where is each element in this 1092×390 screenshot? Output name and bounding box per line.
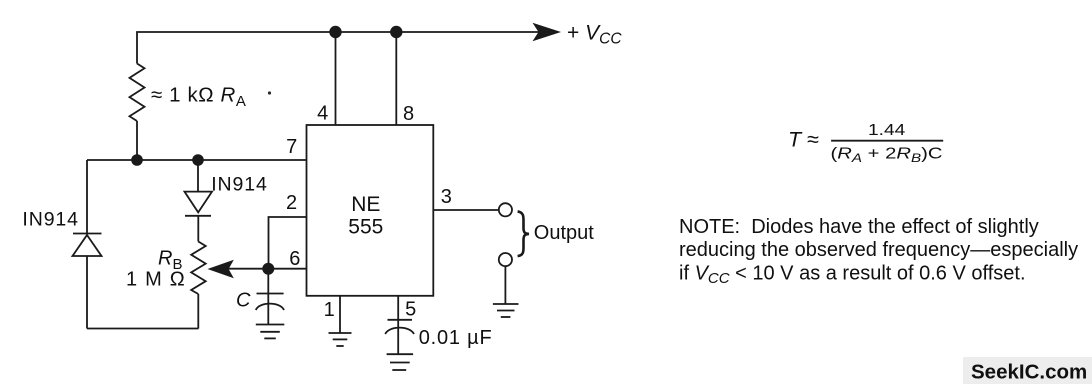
svg-text:1.44: 1.44 [868,122,905,139]
node junction dot on rail at pin8 [390,26,402,38]
capacitor C2 curved plate [385,328,414,334]
wire pin1 vertical [339,296,341,333]
svg-text:1 M Ω: 1 M Ω [126,269,186,291]
svg-text:SeekIC.com: SeekIC.com [971,361,1087,384]
wire bottom return [87,328,199,330]
ground pin5 bar2 [390,362,410,364]
svg-text:if VCC < 10 V as a result of 0: if VCC < 10 V as a result of 0.6 V offse… [679,263,1026,288]
ground below C bar2 [260,331,280,333]
wire bottom terminal to ground [504,266,506,304]
op-amp NE555 box [307,125,434,296]
node dot at RA/pin7 [131,154,143,166]
output brace [518,211,529,256]
svg-text:1: 1 [324,299,335,321]
svg-text:2: 2 [286,192,297,214]
ground below C bar1 [256,324,284,326]
svg-text:T ≈: T ≈ [788,128,819,152]
svg-text:4: 4 [317,102,328,124]
ground pin5 bar1 [387,353,414,355]
wire D2 to RB [197,216,199,242]
wire far-left vertical top [86,160,88,234]
wire pin7 horizontal [87,159,307,161]
watermark background [963,357,1092,384]
svg-text:reducing the observed frequenc: reducing the observed frequency—especial… [679,239,1078,261]
svg-text:7: 7 [286,136,297,158]
svg-text:3: 3 [441,186,452,208]
wire RA bottom to node [136,121,138,160]
svg-text:≈ 1 kΩ RA: ≈ 1 kΩ RA [151,84,247,111]
ground pin1 bar2 [333,338,348,340]
diode D2 IN914 triangle [185,192,213,213]
speck dot [268,91,271,94]
resistor RB zigzag [191,242,206,295]
wire RB bottom [197,294,199,329]
wire node to capacitor C [267,269,269,325]
node dot pin6/wiper/C junction [262,263,274,275]
ground below C bar3 [264,337,276,339]
svg-text:5: 5 [405,298,416,320]
svg-text:(RA + 2RB)C: (RA + 2RB)C [831,146,943,165]
svg-text:NE: NE [351,193,380,216]
resistor RA zigzag [130,64,145,122]
svg-text:C: C [236,290,251,312]
svg-text:6: 6 [289,248,300,270]
node junction dot on rail at pin4 [329,26,341,38]
ground pin1 bar3 [336,345,343,347]
wire pin8 vertical from rail to box top [395,32,397,125]
ground output bar3 [501,316,511,318]
capacitor C curved plate [256,304,284,310]
arrowhead +Vcc [533,23,562,41]
arrowhead wiper pointing left [208,260,234,278]
wire pin4 vertical from rail to box top [335,32,337,125]
svg-text:NOTE: Diodes have the effect: NOTE: Diodes have the effect of slightly [679,216,1039,238]
wire D2 anode [197,160,199,192]
ground pin1 bar1 [329,332,352,334]
ground pin5 bar3 [392,369,406,371]
fraction bar of formula [831,140,943,142]
svg-text:0.01 µF: 0.01 µF [419,327,493,349]
wire pin3 horizontal [433,209,499,211]
node dot at D2 branch [192,154,204,166]
diode D1 IN914 triangle [73,235,102,256]
capacitor C flat plate [257,293,284,295]
diode D2 IN914 cathode bar [185,215,211,217]
wire pin6 horizontal [268,268,306,270]
ground output bar2 [497,310,515,312]
svg-text:IN914: IN914 [22,208,79,230]
wire wiper arrow line [228,268,268,270]
svg-text:+ VCC: + VCC [567,22,622,48]
diode D1 IN914 cathode bar [73,233,102,235]
ground output bar1 [493,303,519,305]
svg-text:Output: Output [534,222,594,244]
svg-text:8: 8 [403,103,414,125]
wire pin5 vertical [397,296,399,354]
svg-text:IN914: IN914 [211,173,268,195]
wire pin2 horizontal [269,217,307,269]
output terminal bottom circle [499,253,512,266]
wire far-left vertical bottom [86,256,88,329]
wire top VCC rail [137,32,548,64]
output terminal top circle [499,203,512,216]
capacitor C2 0.01uF flat plate [388,319,413,321]
svg-text:555: 555 [348,215,383,238]
